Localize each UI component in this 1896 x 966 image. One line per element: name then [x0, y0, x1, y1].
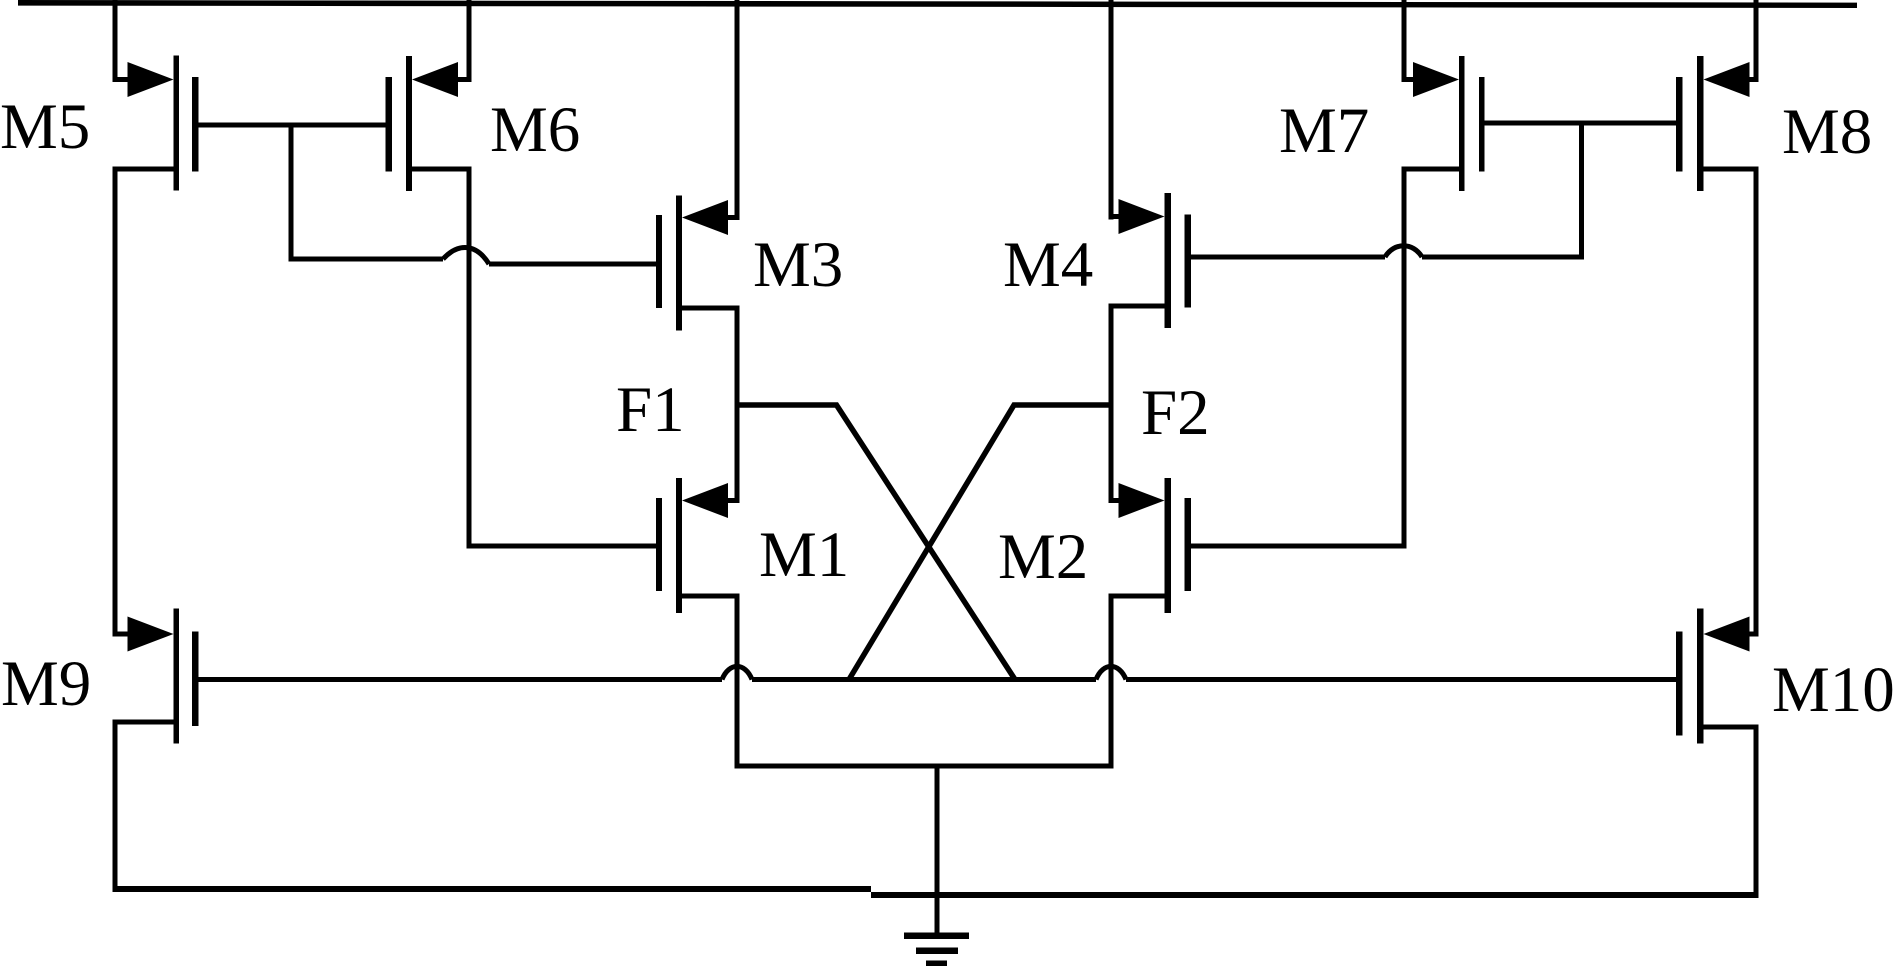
wire M4 drain to rail [1109, 0, 1114, 220]
wire hop over M7 source column [1385, 246, 1422, 257]
transistor M4 [1109, 193, 1192, 328]
VDD rail (top supply rail) [18, 0, 1857, 8]
wire tail horizontal M1-M2 sources [735, 764, 1114, 769]
wire gate junction drop right [1579, 121, 1584, 260]
wire M5 drain to rail [113, 0, 118, 82]
wire M9 source down to bottom rail [113, 720, 118, 893]
wire hop over M1 source column [722, 666, 752, 679]
wire M10 source down to bottom rail [1754, 725, 1759, 899]
wire cascode gate line right segment a [1191, 255, 1385, 260]
wire M1 gate to M6 source column [469, 544, 656, 549]
wire hop over M2 source column [1096, 666, 1126, 679]
wire M1 source down to tail [735, 594, 740, 769]
wire M8 source down to M10 drain [1754, 167, 1759, 637]
wire M6 drain to rail [467, 0, 472, 82]
transistor M9 [113, 609, 199, 744]
wire hop over M6 source column [443, 248, 489, 264]
transistor M5 [113, 56, 199, 191]
transistor M3 [656, 196, 740, 331]
wire long gate line M9-M10 segment c [1126, 677, 1676, 682]
svg-text:M5: M5 [0, 91, 90, 163]
wire cross-couple F2 to left (stub + diagonal) [849, 405, 1114, 680]
wire M3 drain to rail [735, 0, 740, 220]
transistor M2 [1109, 478, 1192, 613]
wire M8 drain to rail [1754, 0, 1759, 82]
wire cascode gate line right segment b [1422, 255, 1584, 260]
wire ground stem [935, 764, 940, 939]
bottom rail left segment [113, 886, 872, 892]
wire gate line M7-M8 [1485, 121, 1677, 126]
wire M7 source down to M2 gate [1402, 167, 1407, 549]
wire cascode gate line left segment a [291, 257, 443, 262]
svg-text:M2: M2 [998, 521, 1088, 593]
svg-text:M3: M3 [753, 229, 843, 301]
svg-text:M7: M7 [1279, 95, 1369, 167]
svg-text:M8: M8 [1782, 96, 1872, 168]
svg-text:M1: M1 [759, 519, 849, 591]
svg-text:M10: M10 [1772, 654, 1895, 726]
node F2 (wire M4 source down through F2 to M2 drain) [1109, 304, 1114, 504]
wire M6 source down to M1 gate [467, 167, 472, 549]
ground [904, 933, 969, 966]
wire M2 source down to tail [1109, 594, 1114, 769]
wire gate junction drop left [289, 123, 294, 262]
transistor M6 [386, 56, 472, 191]
wire gate line M5-M6 [199, 123, 386, 128]
transistor M10 [1676, 609, 1759, 744]
wire cross-couple F1 to right (stub + diagonal) [735, 405, 1016, 680]
wire long gate line M9-M10 segment a [199, 677, 723, 682]
svg-text:M6: M6 [490, 94, 580, 166]
svg-text:F2: F2 [1141, 377, 1210, 449]
transistor M1 [656, 478, 740, 613]
wire M7 drain to rail [1402, 0, 1407, 82]
wire M5 source down to M9 drain [113, 167, 118, 637]
wire M2 gate to M7 source column [1191, 544, 1407, 549]
svg-text:M9: M9 [1, 648, 91, 720]
node F1 (wire M3 source down through F1 to M1 drain) [735, 306, 740, 504]
transistor M7 [1402, 56, 1485, 191]
transistor M8 [1676, 56, 1759, 191]
wire cascode gate line left segment b [489, 262, 656, 267]
svg-text:M4: M4 [1003, 229, 1093, 301]
wire long gate line M9-M10 segment b [752, 677, 1096, 682]
bottom rail right segment [871, 892, 1759, 898]
svg-text:F1: F1 [616, 374, 685, 446]
